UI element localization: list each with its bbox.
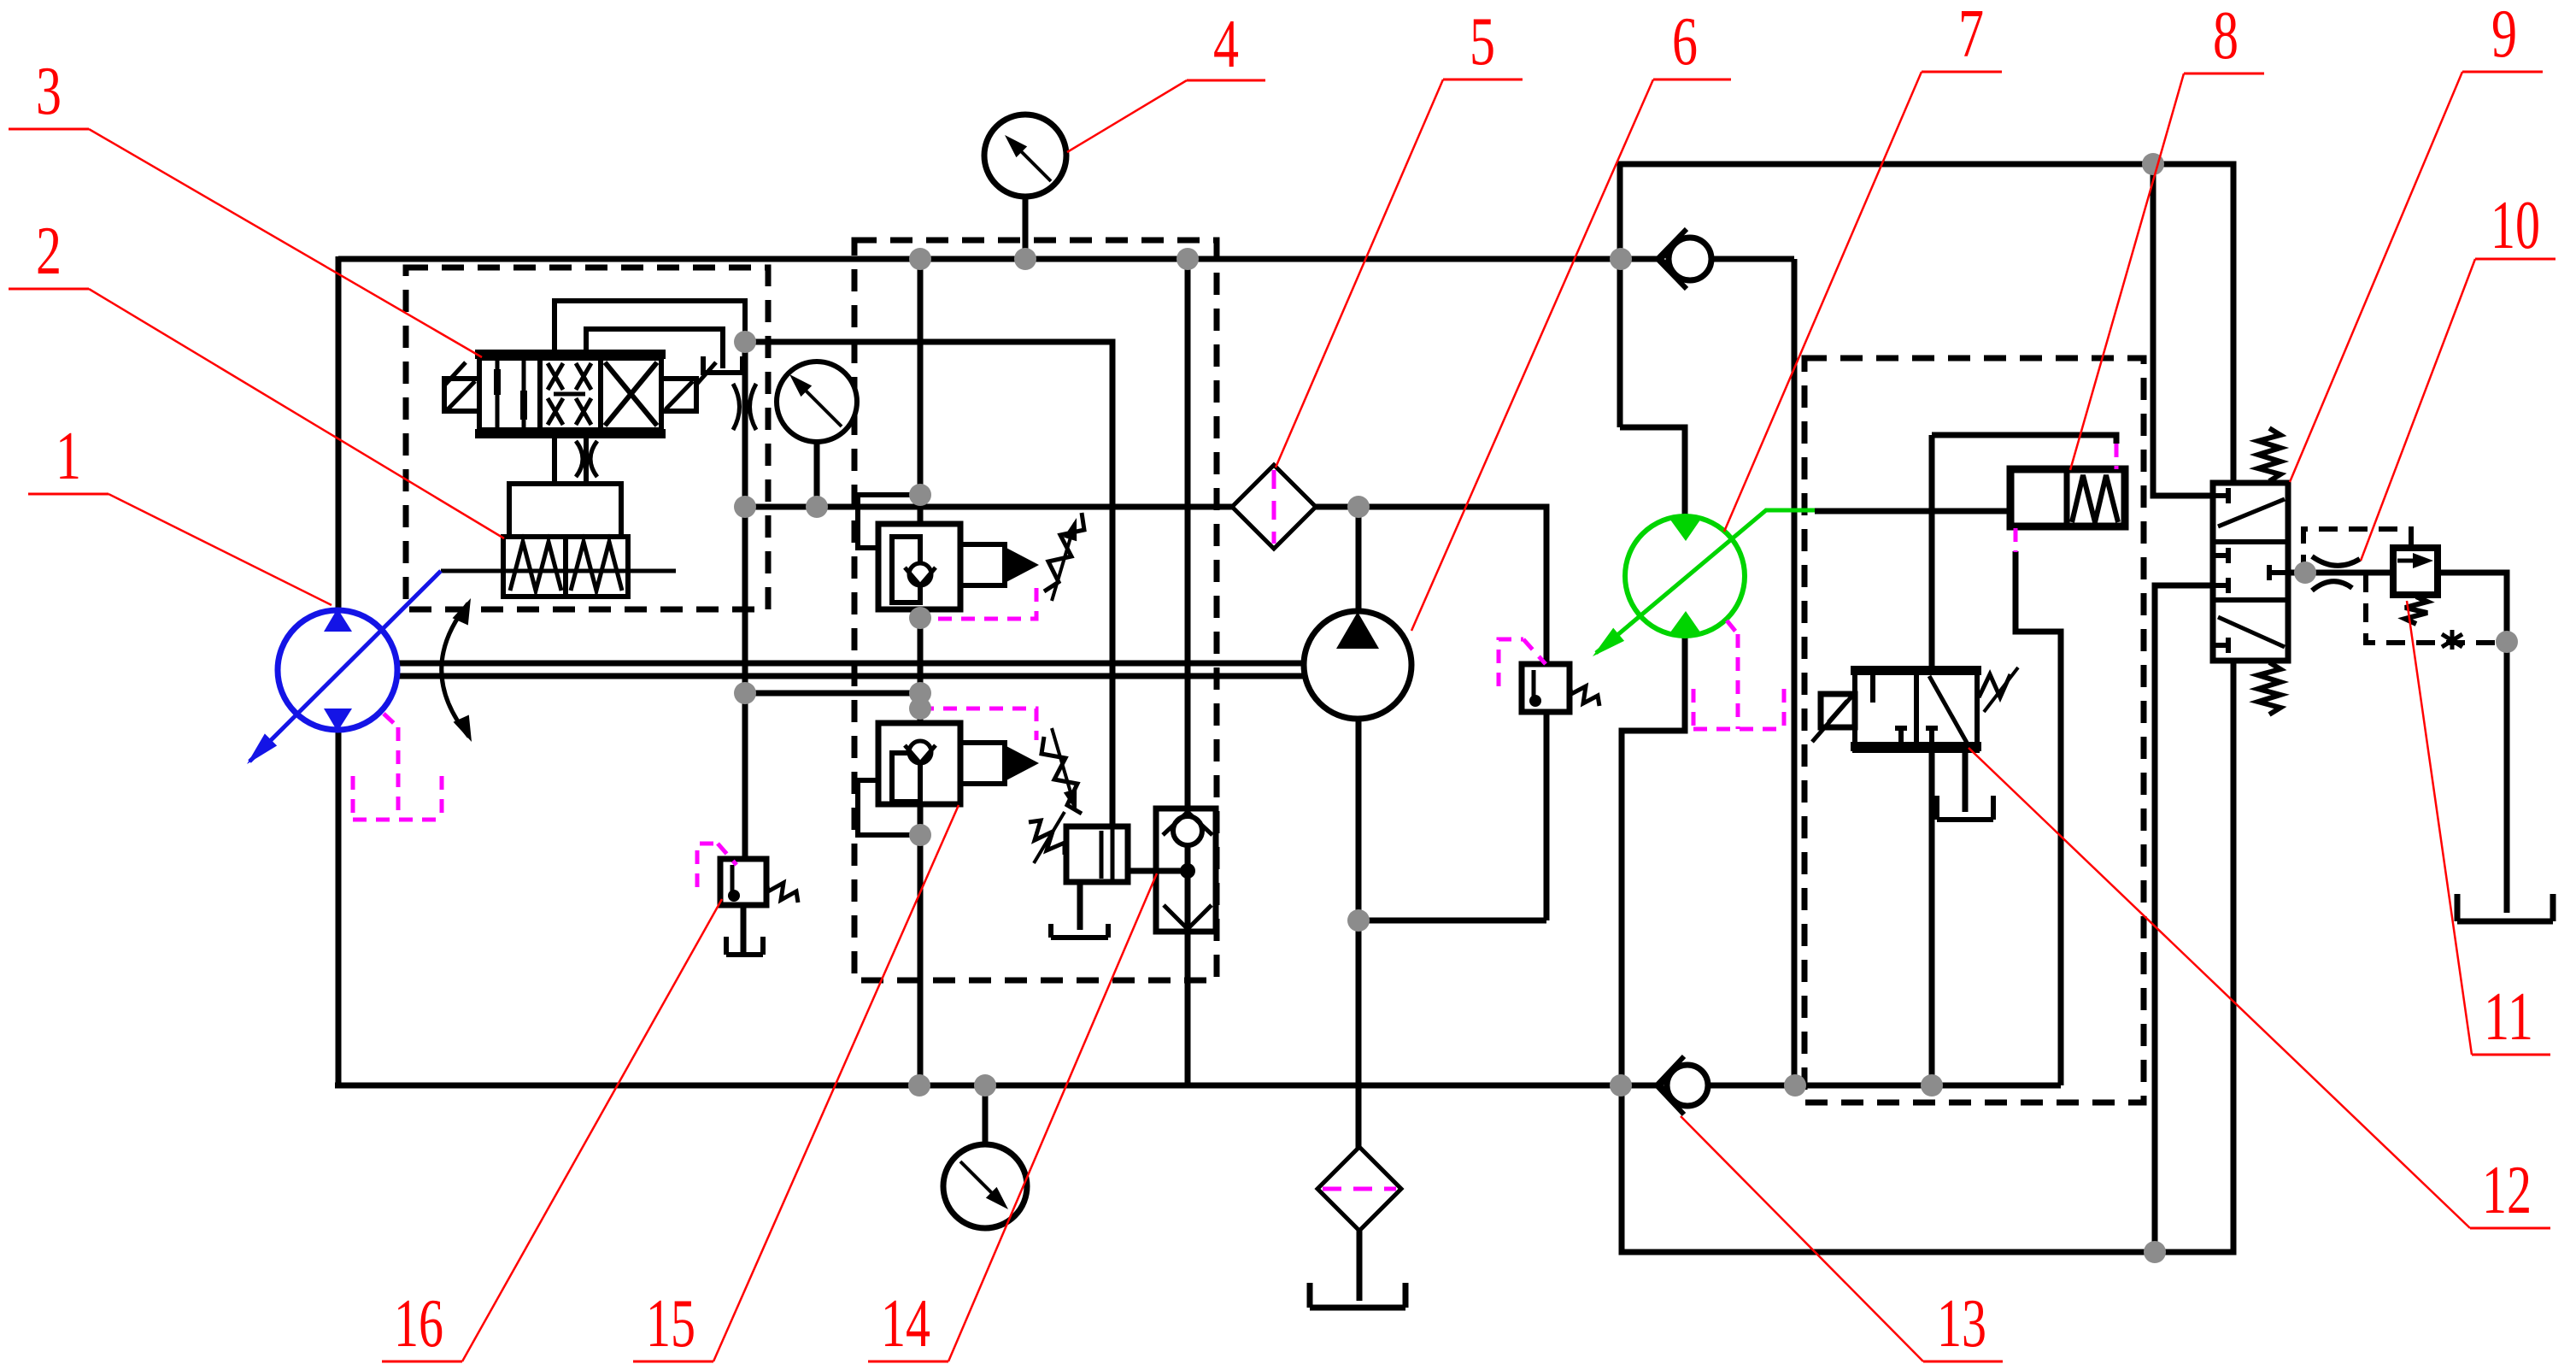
throttle 10 upper arc bbox=[2312, 556, 2360, 566]
filter 5 diamond bbox=[1232, 465, 1316, 549]
orifice on pilot line x=871 bbox=[733, 384, 756, 430]
svg-text:14: 14 bbox=[881, 1286, 930, 1361]
valve 9 mid-right port T bbox=[2269, 565, 2288, 580]
counterbalance valve 15: inner box bbox=[892, 753, 920, 802]
valve 9 dividers bbox=[2213, 542, 2288, 600]
motor 7 upper triangle bbox=[1668, 516, 1703, 541]
counterbalance valve upper: check ball bbox=[909, 563, 931, 585]
check valve 14 seat bbox=[1163, 812, 1212, 835]
junction dot 24 at (2934,751) bbox=[2496, 631, 2518, 653]
valve 12 spring bbox=[1979, 674, 2010, 697]
wire: solenoid 8 down to valve 12 loop bbox=[2016, 551, 2061, 1085]
throttle 10 lower arc bbox=[2312, 581, 2352, 591]
return filter diamond bbox=[1317, 1147, 1401, 1231]
label 15 underline bbox=[633, 1361, 713, 1363]
junction dot 15 at (872,811) bbox=[734, 682, 756, 704]
valve 3 pilot loop to drain bracket bbox=[586, 329, 723, 368]
counterbalance valve upper: bypass loop bbox=[858, 495, 921, 548]
junction dot 23 at (2698,670) bbox=[2294, 562, 2316, 584]
label 9 leader line bbox=[2290, 72, 2462, 482]
counterbalance valve upper: spring arrowhead bbox=[1064, 518, 1077, 541]
check valve (motor feed) seat wedge bbox=[1661, 250, 1675, 268]
counterbalance valve 15: seat V bbox=[905, 745, 936, 763]
valve 9 bottom cell diagonal bbox=[2218, 617, 2285, 647]
relief valve (charge loop) internal dot bbox=[1529, 695, 1541, 707]
svg-text:12: 12 bbox=[2482, 1153, 2532, 1228]
wire: pump drive shaft double line lower bbox=[398, 673, 1308, 679]
wire: pilot line y=400 down to relief valve 14 bbox=[745, 342, 1112, 829]
spring box 2 left spring bbox=[510, 542, 561, 591]
valve 3 middle cell crossed arrows bbox=[548, 363, 591, 425]
relief valve 14 body bbox=[1066, 826, 1128, 882]
label 1 leader line bbox=[109, 494, 332, 605]
dashed enclosure box (pump control, left) bbox=[406, 268, 768, 609]
label 14 underline bbox=[868, 1361, 948, 1363]
check valve (motor feed) ball bbox=[1669, 238, 1711, 280]
label 16 leader line bbox=[462, 899, 722, 1361]
counterbalance valve upper: spring bbox=[1044, 513, 1084, 591]
junction dot 1 at (1077,303) bbox=[909, 248, 931, 270]
feedback lever line through spring box 2 bbox=[441, 569, 676, 573]
orifice on valve 3 pilot bbox=[576, 441, 597, 477]
counterbalance valve 15: piston box bbox=[960, 743, 1005, 784]
svg-text:10: 10 bbox=[2491, 188, 2540, 263]
pump 1 arrow head bbox=[247, 733, 277, 764]
label 2 leader line bbox=[89, 289, 504, 538]
svg-text:9: 9 bbox=[2491, 0, 2517, 72]
valve 3 lower pilot lines bbox=[555, 438, 586, 484]
check valve 14 ball bbox=[1173, 816, 1202, 845]
relief valve 16 body bbox=[720, 859, 766, 905]
pump 1 variable displacement arrow (blue) bbox=[249, 571, 441, 761]
valve 3 drain bracket (vent) bbox=[703, 356, 742, 373]
pump 1 upper flow triangle bbox=[324, 609, 352, 632]
dashed enclosure box (motor valve block, right) bbox=[1804, 358, 2144, 1102]
counterbalance valve upper: seat V bbox=[905, 567, 936, 585]
valve 3 pilot loop to junction bbox=[555, 301, 745, 358]
svg-text:15: 15 bbox=[646, 1286, 695, 1361]
solenoid valve 8 pilot dashed bottom (magenta) bbox=[2014, 528, 2018, 552]
junction dot 20 at (2261,1270) bbox=[1921, 1074, 1943, 1097]
relief valve 11 pilot dashed box (black) bbox=[2303, 529, 2411, 573]
junction dot 17 at (1153,1270) bbox=[974, 1074, 996, 1097]
valve 9 bottom-left port T bbox=[2213, 638, 2228, 653]
motor 7 case drain dashed bracket (magenta) bbox=[1693, 620, 1784, 729]
check valve 13 seat bbox=[1657, 1056, 1684, 1114]
spring box 2 right spring bbox=[571, 542, 622, 591]
counterbalance valve upper: outer box bbox=[878, 524, 960, 609]
wire: solenoid 8 pilot feed bbox=[1932, 435, 2116, 444]
counterbalance valve 15: solenoid triangle bbox=[1005, 745, 1039, 781]
label 3 leader line bbox=[89, 129, 482, 357]
rotation arc arrowhead top bbox=[453, 598, 471, 625]
relief valve 16 internal dot bbox=[728, 890, 740, 902]
relief valve 14 spring arrow bbox=[1034, 812, 1065, 863]
valve 12 right cell port T bbox=[1926, 728, 1938, 742]
valve 3 cell dividers bbox=[540, 359, 601, 429]
relief valve 16 internal line bbox=[731, 865, 735, 899]
valve 9 mid-left port T upper bbox=[2213, 548, 2228, 563]
valve 3 right solenoid box bbox=[661, 379, 696, 411]
wire: valve 9 feed from line B junction bbox=[2153, 164, 2213, 496]
junction dot 9 at (1590,593) bbox=[1347, 496, 1370, 518]
label 16 underline bbox=[382, 1361, 462, 1363]
relief valve 11 internal arrow line bbox=[2397, 559, 2421, 563]
wire: black line from green segment to solenoid 8 bbox=[1815, 509, 2064, 514]
label 13 leader line bbox=[1681, 1116, 1923, 1361]
label 7 underline bbox=[1922, 71, 2002, 73]
solenoid valve 8 springs bbox=[2072, 475, 2118, 522]
wire: vertical line x=1390 (gauge/check branch) bbox=[1185, 259, 1191, 1085]
bottom pressure gauge needle bbox=[960, 1161, 1003, 1204]
spring box 2 divider bbox=[563, 537, 568, 597]
junction dot 11 at (1077,723) bbox=[909, 607, 931, 629]
label 8 underline bbox=[2184, 73, 2264, 75]
junction dot 10 at (1077,579) bbox=[909, 484, 931, 506]
counterbalance valve 15: bypass loop bbox=[858, 780, 920, 835]
tank symbol under return filter bbox=[1310, 1283, 1405, 1308]
label 10 leader line bbox=[2361, 259, 2475, 561]
wire: relief 14 tank stem bbox=[1077, 885, 1083, 930]
relief valve (charge loop) pilot dashed (magenta) bbox=[1499, 639, 1546, 686]
valve 3 left cell arrow marks bbox=[494, 369, 501, 395]
svg-text:6: 6 bbox=[1672, 4, 1698, 79]
solenoid valve 8 divider bbox=[2064, 469, 2070, 526]
label 5 leader line bbox=[1276, 79, 1443, 467]
wire: pump drive shaft double line upper bbox=[398, 661, 1308, 667]
junction dot 18 at (1897,1270) bbox=[1610, 1074, 1632, 1097]
valve 9 top-left port T bbox=[2213, 488, 2228, 503]
label 6 leader line bbox=[1411, 79, 1653, 631]
label 12 underline bbox=[2470, 1227, 2550, 1230]
counterbalance valve 15: spring arrowhead bbox=[1064, 789, 1077, 812]
valve 3 left cell flow lines bbox=[497, 359, 524, 429]
label 7 leader line bbox=[1724, 72, 1922, 532]
wire: charge pump suction line x=1590 bbox=[1356, 507, 1362, 1150]
junction dot 6 at (872,400) bbox=[734, 331, 756, 353]
junction dot 3 at (1390,303) bbox=[1177, 248, 1199, 270]
wire: relief 11 to tank 11 bbox=[2438, 573, 2507, 913]
wire: left block left edge lower segment bbox=[336, 729, 342, 1085]
valve 12 solenoid slash bbox=[1812, 696, 1852, 742]
wire: bottom gauge stem bbox=[983, 1085, 989, 1145]
valve 12 body bbox=[1855, 669, 1977, 750]
junction dot 22 at (2522,1465) bbox=[2144, 1241, 2166, 1263]
check valve 13 seat wedge bbox=[1660, 1077, 1674, 1094]
label 15 leader line bbox=[713, 805, 959, 1361]
bottom pressure gauge circle bbox=[943, 1144, 1027, 1228]
charge pump 6 circle bbox=[1304, 611, 1411, 719]
label 4 leader line bbox=[1067, 80, 1187, 152]
svg-text:4: 4 bbox=[1213, 7, 1239, 82]
wire: relief 14 to check box 14 bbox=[1125, 868, 1188, 874]
valve 3 right cell crossed flow (X) bbox=[605, 362, 657, 426]
tank symbol under relief 16 bbox=[726, 937, 763, 955]
spring box 2 body bbox=[503, 537, 628, 597]
label 9 underline bbox=[2462, 71, 2543, 73]
wire: vertical line x=2100 (right end of line A) bbox=[1792, 259, 1798, 1085]
label 2 underline bbox=[9, 288, 89, 291]
valve 3 left solenoid box bbox=[444, 379, 479, 411]
wire: below bottom filter to tank bbox=[1357, 1229, 1363, 1301]
tank symbol under valve 12 bbox=[1937, 796, 1993, 820]
junction dot 5 at (2520,192) bbox=[2142, 153, 2164, 175]
check valve box 14 outline bbox=[1156, 808, 1216, 932]
tank symbol under relief 14 bbox=[1051, 924, 1108, 938]
valve 9 body bbox=[2213, 483, 2288, 661]
valve 9 top cell diagonal bbox=[2218, 499, 2285, 526]
dashed enclosure box (valve manifold, center) bbox=[854, 240, 1217, 980]
valve 9 mid-left port T lower bbox=[2213, 578, 2228, 593]
wire: top line B bbox=[1620, 164, 2233, 481]
counterbalance valve upper: spring arrow bbox=[1052, 523, 1075, 601]
relief valve 16 pilot dashed (magenta) bbox=[697, 844, 736, 887]
junction dot 12 at (1077,811) bbox=[909, 682, 931, 704]
proportional valve 3 body bbox=[479, 358, 661, 430]
wire: vertical line x=871 (pilot/relief 16 branch) bbox=[742, 342, 748, 861]
wire: stub y=811 between x=871 and x=1077 bbox=[745, 691, 920, 697]
svg-text:5: 5 bbox=[1470, 4, 1495, 79]
relief valve (charge loop) spring bbox=[1570, 684, 1599, 706]
counterbalance valve upper: piston box bbox=[960, 544, 1005, 585]
pressure gauge 2 needle bbox=[795, 379, 842, 426]
valve 9 top spring bbox=[2258, 428, 2280, 481]
label 14 leader line bbox=[948, 873, 1157, 1361]
label 11 leader line bbox=[2407, 601, 2472, 1055]
relief valve (charge loop) internal line bbox=[1532, 670, 1536, 704]
hydraulic motor 7 (green) circle bbox=[1625, 516, 1745, 636]
relief valve 16 spring bbox=[766, 880, 798, 903]
label 4 underline bbox=[1187, 79, 1265, 82]
junction dot 21 at (1590,1077) bbox=[1347, 909, 1370, 932]
wire: gauge 4 stem bbox=[1023, 197, 1029, 259]
check valve 13 ball bbox=[1667, 1065, 1708, 1106]
svg-text:11: 11 bbox=[2484, 979, 2533, 1055]
svg-text:2: 2 bbox=[36, 214, 62, 289]
label 13 underline bbox=[1923, 1361, 2003, 1363]
bottom pressure gauge needle arrowhead bbox=[986, 1187, 1008, 1209]
counterbalance valve 15: outer box bbox=[878, 723, 960, 804]
wire: vertical main line through counterbalance valves bbox=[918, 259, 924, 1085]
valve 3 right solenoid slash bbox=[666, 362, 716, 409]
tank symbol 11 bbox=[2457, 894, 2553, 921]
valve 12 thick top bar bbox=[1851, 666, 1981, 675]
motor 7 variable arrow (green) bbox=[1596, 510, 1815, 653]
valve 12 divider bbox=[1914, 675, 1919, 742]
counterbalance valve upper: inner box bbox=[892, 537, 920, 603]
pump 1 case drain dashed bracket (magenta) bbox=[353, 714, 442, 820]
label 10 underline bbox=[2475, 258, 2555, 261]
junction dot 16 at (1076,1270) bbox=[908, 1074, 930, 1097]
label 1 underline bbox=[28, 493, 109, 496]
svg-text:16: 16 bbox=[394, 1286, 443, 1361]
pump 1 lower flow triangle bbox=[324, 709, 352, 732]
pressure gauge 4 needle bbox=[1012, 142, 1051, 181]
relief valve (charge loop) body bbox=[1522, 664, 1570, 712]
counterbalance valve 15: check ball bbox=[909, 741, 931, 763]
relief valve 11 drain dashed (black) bbox=[2366, 573, 2503, 643]
solenoid valve 8 pilot dashed top (magenta) bbox=[2115, 444, 2119, 469]
wire: main pressure line A (top of left block) bbox=[338, 256, 1794, 262]
relief valve 14 piston lines bbox=[1101, 826, 1112, 882]
counterbalance valve 15: spring bbox=[1042, 737, 1082, 814]
junction dot 8 at (956,593) bbox=[806, 496, 828, 518]
label 8 leader line bbox=[2070, 73, 2184, 470]
svg-text:7: 7 bbox=[1958, 0, 1984, 72]
relief valve 11 spring bbox=[2405, 597, 2427, 624]
valve 12 thick bottom bar bbox=[1851, 742, 1981, 751]
wire: junction to relief 13 and down to suction stub bbox=[1358, 507, 1546, 920]
pressure gauge 2 needle arrowhead bbox=[789, 374, 812, 397]
wire: line y=593 from x=871 to filter 5 bbox=[745, 504, 1235, 510]
valve 3 thick top bar bbox=[475, 350, 666, 359]
junction dot 4 at (1897,303) bbox=[1610, 248, 1632, 270]
rotation arc arrowhead bottom bbox=[454, 715, 472, 742]
wire: filter 5 to junction x=1590 bbox=[1312, 504, 1358, 510]
label 6 underline bbox=[1653, 79, 1731, 81]
valve 3 left solenoid slash bbox=[445, 362, 475, 409]
label 11 underline bbox=[2472, 1054, 2550, 1056]
counterbalance valve upper: solenoid triangle bbox=[1005, 547, 1039, 583]
filter 5 element dashed (magenta) bbox=[1272, 470, 1276, 544]
wire: left block left edge upper segment bbox=[336, 256, 342, 612]
check valve 14 lower V bbox=[1164, 905, 1212, 929]
svg-text:8: 8 bbox=[2213, 0, 2239, 73]
junction dot 7 at (872,593) bbox=[734, 496, 756, 518]
relief valve 14 spring bbox=[1029, 820, 1065, 855]
relief valve 11 body bbox=[2393, 548, 2438, 595]
valve 9 bottom spring bbox=[2258, 662, 2280, 714]
label 3 underline bbox=[9, 128, 89, 131]
svg-text:1: 1 bbox=[56, 419, 81, 494]
junction dot 14 at (1077,977) bbox=[909, 824, 931, 846]
yoke linking pilots to spring box 2 bbox=[509, 484, 621, 537]
pressure gauge 2 circle bbox=[777, 362, 857, 442]
pressure gauge 4 circle bbox=[984, 115, 1066, 197]
junction dot 2 at (1200,303) bbox=[1014, 248, 1036, 270]
wire: left block bottom return line bbox=[335, 1083, 2061, 1089]
charge pump 6 flow triangle bbox=[1336, 612, 1379, 649]
relief valve 11 internal arrowhead bbox=[2413, 553, 2433, 568]
svg-text:3: 3 bbox=[36, 54, 62, 129]
plugged orifice X symbol bbox=[2442, 630, 2462, 650]
return filter dashed (magenta) bbox=[1323, 1187, 1396, 1191]
solenoid valve 8 box bbox=[2010, 469, 2125, 526]
valve 12 right cell diagonal bbox=[1929, 676, 1967, 743]
motor 7 lower triangle bbox=[1668, 611, 1703, 636]
wire: valve 9 right port to relief 11 bbox=[2286, 570, 2393, 576]
valve 12 left cell stub bbox=[1870, 675, 1875, 703]
pressure gauge 4 needle arrowhead bbox=[1005, 135, 1027, 157]
counterbalance valve 15: spring arrow bbox=[1052, 728, 1075, 807]
label 12 leader line bbox=[1969, 748, 2470, 1228]
wire: green motor return down to bottom right line bbox=[1622, 636, 2233, 1252]
motor 7 arrow head (green) bbox=[1593, 628, 1624, 656]
variable displacement pump 1 (blue) circle bbox=[278, 610, 397, 730]
junction dot 19 at (2101,1270) bbox=[1784, 1074, 1806, 1097]
counterbalance valve upper: pilot dashed (magenta) bbox=[920, 588, 1036, 619]
check valve 14 junction dot (black) bbox=[1180, 863, 1195, 879]
wire: valve 12 tank stem bbox=[1963, 750, 1969, 812]
wire: valve 12 vertical line bbox=[1929, 435, 1935, 1085]
valve 12 spring slash bbox=[1984, 667, 2018, 712]
valve 12 left cell port T bbox=[1895, 728, 1907, 742]
valve 12 solenoid box bbox=[1821, 694, 1855, 727]
wire: valve 9 middle port to tank line bbox=[2155, 585, 2213, 1252]
junction dot 13 at (1077,829) bbox=[909, 697, 931, 720]
counterbalance valve 15: pilot dashed (magenta) bbox=[920, 709, 1036, 740]
wire: check valve branch down to green motor bbox=[1620, 259, 1685, 517]
pump 1 rotation arc arrow bbox=[442, 603, 469, 737]
valve 3 thick bottom bar bbox=[475, 429, 666, 438]
label 5 underline bbox=[1443, 79, 1523, 81]
svg-text:13: 13 bbox=[1937, 1286, 1986, 1361]
check valve (motor feed) seat bbox=[1658, 229, 1687, 289]
wire: relief 16 to tank stem bbox=[741, 905, 747, 955]
pressure gauge 2 stem bbox=[814, 442, 820, 507]
